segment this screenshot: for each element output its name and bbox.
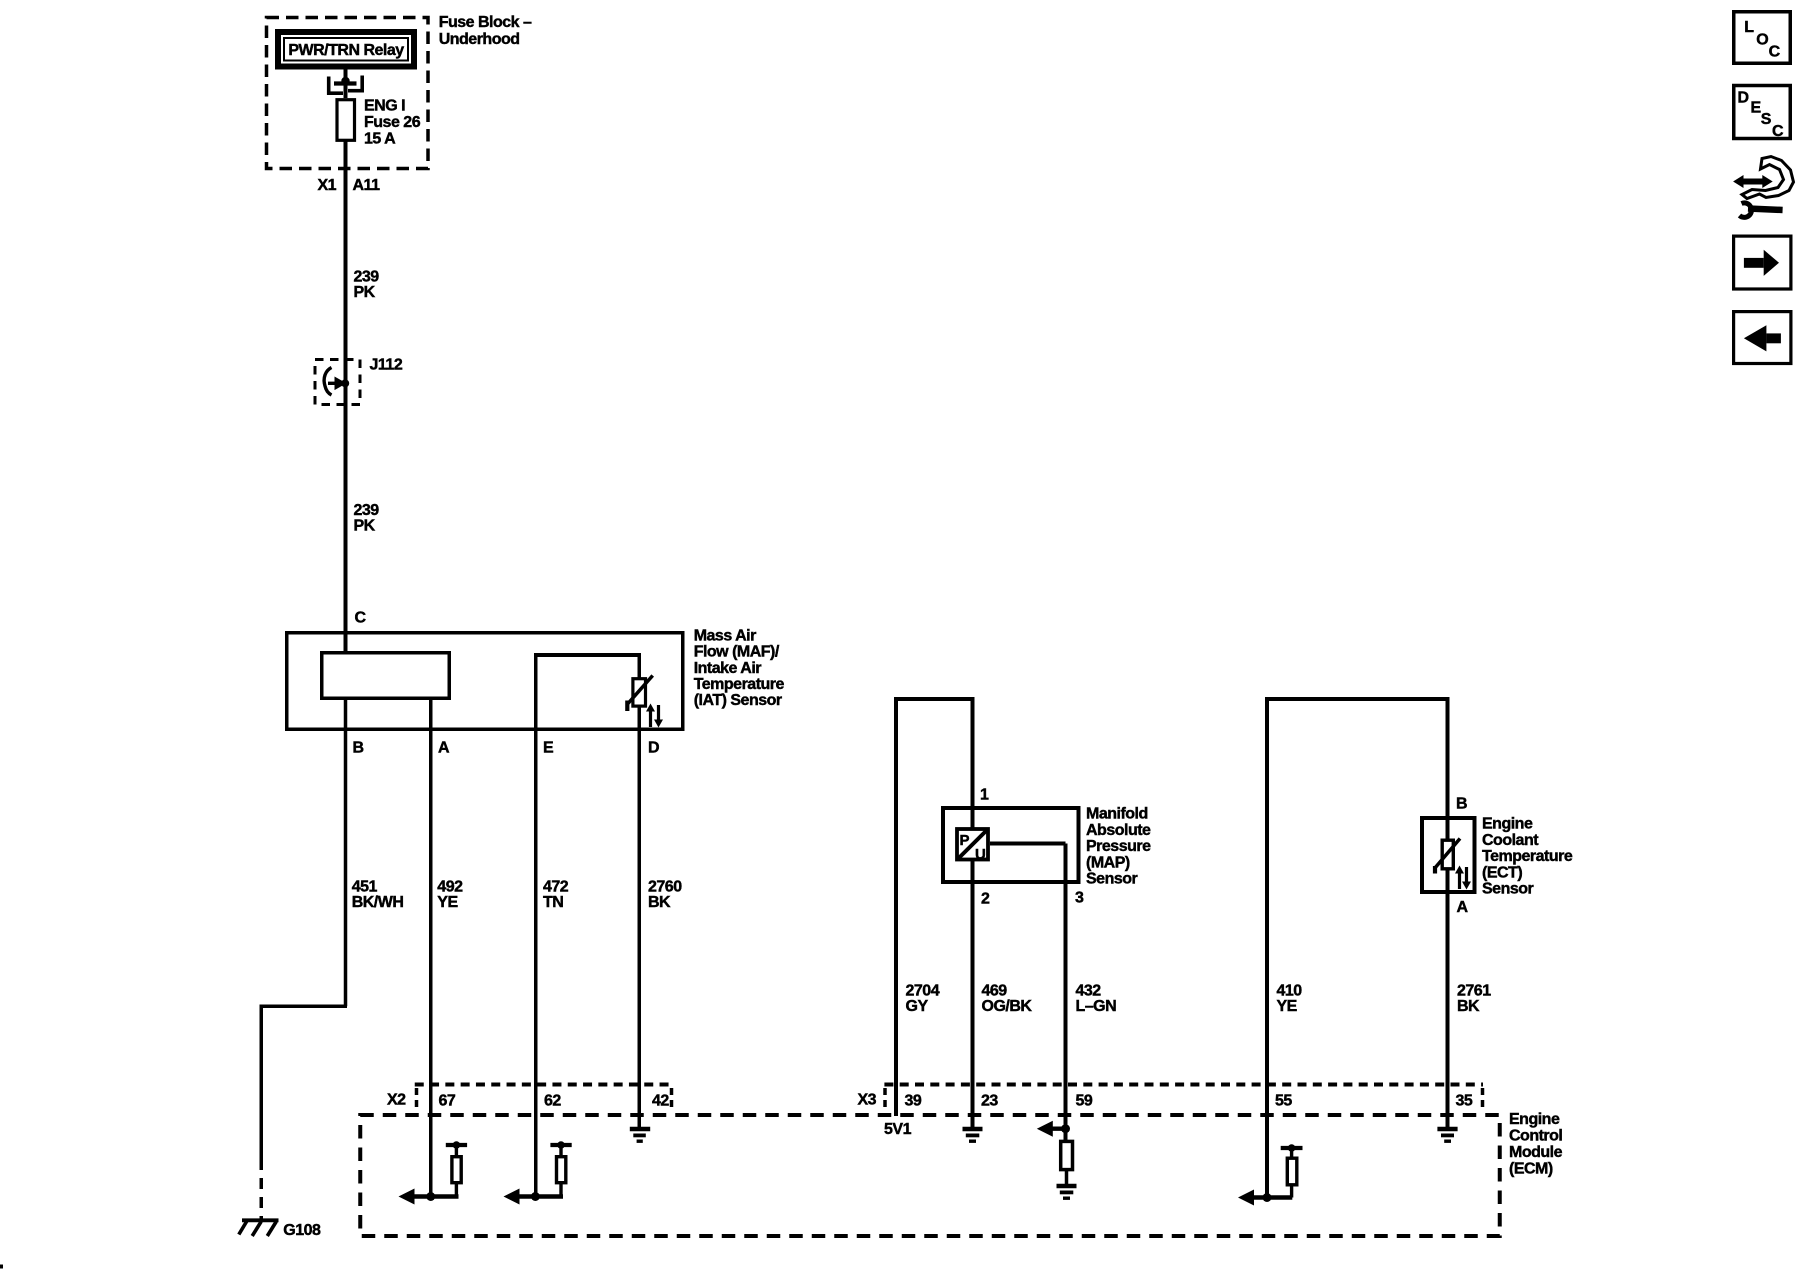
svg-text:(ECM): (ECM) <box>1509 1161 1553 1178</box>
thermistor ECT element <box>1435 839 1461 874</box>
wire label 469 OG/BK <box>982 983 1033 1016</box>
svg-text:Engine: Engine <box>1509 1111 1560 1128</box>
wire 2761 BK: ECT A to ECM 35 ground <box>1446 869 1450 1128</box>
page edge mark <box>0 1265 3 1269</box>
splice J112 dashed box <box>315 360 360 405</box>
svg-text:2: 2 <box>981 891 990 908</box>
svg-text:Sensor: Sensor <box>1482 881 1534 898</box>
svg-text:Fuse Block –: Fuse Block – <box>439 14 532 31</box>
connector X3 strip (dotted) <box>884 1085 1483 1112</box>
thermistor IAT element <box>627 676 652 712</box>
ECM output arrow at pin 55 <box>1238 1190 1292 1206</box>
svg-text:OG/BK: OG/BK <box>982 998 1033 1015</box>
svg-text:5V1: 5V1 <box>884 1121 912 1138</box>
svg-text:BK/WH: BK/WH <box>352 894 404 911</box>
wire: MAP internal U output to pin 3 <box>990 842 1066 846</box>
svg-text:35: 35 <box>1456 1093 1473 1110</box>
wire 2704 GY: ECM 39 up and over to MAP pin 1 <box>894 699 975 1116</box>
ECM reference arrow at pin 59 <box>1037 1121 1070 1137</box>
svg-text:39: 39 <box>905 1093 922 1110</box>
ECM output arrow at pin 62 <box>504 1189 564 1205</box>
wire: MAF internal E to D top link <box>536 653 640 731</box>
label: Fuse Block - Underhood <box>439 14 532 48</box>
svg-text:L–GN: L–GN <box>1076 998 1117 1015</box>
svg-text:S: S <box>1761 111 1772 128</box>
svg-text:X3: X3 <box>858 1092 877 1109</box>
svg-text:GY: GY <box>906 998 929 1015</box>
svg-text:TN: TN <box>543 894 563 911</box>
svg-text:Pressure: Pressure <box>1086 838 1151 855</box>
svg-text:Temperature: Temperature <box>1482 848 1573 865</box>
svg-text:472: 472 <box>543 879 569 896</box>
svg-text:Engine: Engine <box>1482 816 1533 833</box>
svg-text:PWR/TRN Relay: PWR/TRN Relay <box>288 42 404 59</box>
nav icon forward arrow box <box>1734 236 1791 289</box>
ground G108 <box>239 1220 279 1237</box>
wire label 2760 BK <box>648 879 682 912</box>
svg-text:Mass Air: Mass Air <box>694 627 756 644</box>
ECM output arrow at pin 67 <box>399 1189 459 1205</box>
svg-text:P: P <box>960 832 970 849</box>
svg-text:Manifold: Manifold <box>1086 806 1148 823</box>
connector X2 strip (dotted) <box>415 1085 672 1112</box>
svg-text:2761: 2761 <box>1457 983 1491 1000</box>
wire: fuse to MAF pin C (main feed) <box>344 140 348 652</box>
wire label 2761 BK <box>1457 983 1491 1016</box>
svg-text:D: D <box>648 740 659 757</box>
wire 451 BK/WH: MAF B to G108 <box>260 698 348 1219</box>
wire label 239 PK (lower) <box>354 502 380 535</box>
svg-text:55: 55 <box>1275 1093 1292 1110</box>
svg-text:O: O <box>1756 32 1768 49</box>
svg-text:YE: YE <box>1277 998 1298 1015</box>
svg-text:PK: PK <box>354 518 376 535</box>
svg-text:Fuse 26: Fuse 26 <box>364 114 421 131</box>
label: Manifold Absolute Pressure (MAP) Sensor <box>1086 806 1151 888</box>
wire label 472 TN <box>543 879 569 912</box>
svg-text:2704: 2704 <box>906 983 940 1000</box>
svg-text:U: U <box>975 846 986 863</box>
svg-text:67: 67 <box>439 1093 456 1110</box>
wire 472 TN: MAF E to ECM 62 <box>534 731 538 1197</box>
svg-text:X2: X2 <box>387 1092 406 1109</box>
svg-text:YE: YE <box>437 894 458 911</box>
svg-text:C: C <box>1769 44 1781 61</box>
wire label 451 BK/WH <box>352 879 404 912</box>
fuse block underhood dashed box <box>267 18 429 169</box>
svg-text:A: A <box>438 740 450 757</box>
nav icon tools/repair <box>1733 157 1793 218</box>
svg-text:451: 451 <box>352 879 378 896</box>
svg-text:Underhood: Underhood <box>439 31 520 48</box>
wire label 410 YE <box>1277 983 1303 1016</box>
ECM dashed box <box>360 1115 1500 1236</box>
svg-text:410: 410 <box>1277 983 1303 1000</box>
MAF/IAT sensor outer box <box>287 633 683 730</box>
svg-text:432: 432 <box>1076 983 1102 1000</box>
svg-text:Intake Air: Intake Air <box>694 660 762 677</box>
svg-text:Sensor: Sensor <box>1086 871 1138 888</box>
ECT sensor box <box>1422 818 1475 892</box>
MAP P/U transducer symbol <box>957 829 988 863</box>
svg-text:(MAP): (MAP) <box>1086 854 1130 871</box>
svg-text:X1: X1 <box>318 177 337 194</box>
wire 492 YE: MAF A to ECM 67 <box>429 698 433 1197</box>
nav icon back arrow box <box>1734 312 1791 364</box>
svg-text:2760: 2760 <box>648 879 682 896</box>
svg-text:1: 1 <box>980 787 989 804</box>
ECT bidirectional arrows <box>1455 866 1471 890</box>
ECM pull-up resistor at pin 62 <box>550 1141 571 1196</box>
svg-text:PK: PK <box>354 284 376 301</box>
fuse F26: ENG I Fuse 26 15 A <box>337 98 421 148</box>
svg-text:239: 239 <box>354 502 380 519</box>
node X1 A11 labels <box>318 177 381 194</box>
svg-text:BK: BK <box>1457 998 1480 1015</box>
svg-text:Temperature: Temperature <box>694 676 785 693</box>
svg-text:J112: J112 <box>370 357 403 374</box>
ECM pull-up resistor at pin 67 <box>446 1141 467 1196</box>
label: Engine Control Module (ECM) <box>1509 1111 1563 1178</box>
svg-text:A: A <box>1457 899 1469 916</box>
svg-text:239: 239 <box>354 269 380 286</box>
ECM ground at pin 23 <box>963 1129 983 1141</box>
MAP sensor box <box>943 808 1079 882</box>
wire 2760 BK: IAT D to ECM 42 ground <box>638 707 642 1127</box>
svg-text:Control: Control <box>1509 1128 1562 1145</box>
svg-text:62: 62 <box>544 1093 561 1110</box>
ECM ground at pin 35 <box>1437 1129 1457 1141</box>
ECM pull-up resistor at pin 55 <box>1281 1144 1303 1197</box>
wire: relay to fuse clip <box>344 70 348 99</box>
fuse holder clip terminal <box>327 76 364 95</box>
svg-text:C: C <box>1772 123 1784 140</box>
wire label 492 YE <box>437 879 463 912</box>
ECM ground at pin 42 <box>630 1129 650 1141</box>
svg-text:Absolute: Absolute <box>1086 822 1151 839</box>
splice J112 terminal symbol <box>324 368 349 396</box>
svg-text:23: 23 <box>981 1093 998 1110</box>
ECM ground below resistor at pin 59 <box>1057 1186 1077 1198</box>
wire label 239 PK (upper) <box>354 269 380 302</box>
nav icon DESC box <box>1734 86 1791 141</box>
relay K: PWR/TRN Relay box <box>278 32 414 67</box>
svg-text:D: D <box>1738 90 1749 107</box>
MAF sensor inner element box <box>322 653 450 699</box>
svg-text:3: 3 <box>1075 890 1084 907</box>
wire label 432 L-GN <box>1076 983 1117 1016</box>
svg-text:Module: Module <box>1509 1144 1563 1161</box>
svg-text:A11: A11 <box>353 177 381 194</box>
svg-text:42: 42 <box>652 1093 669 1110</box>
wire label 2704 GY <box>906 983 940 1016</box>
svg-text:15 A: 15 A <box>364 130 396 147</box>
svg-text:(ECT): (ECT) <box>1482 864 1522 881</box>
nav icon LOC box <box>1734 12 1791 64</box>
svg-text:B: B <box>353 740 364 757</box>
svg-text:492: 492 <box>437 879 463 896</box>
IAT bidirectional arrows <box>646 704 663 728</box>
svg-text:(IAT) Sensor: (IAT) Sensor <box>694 692 782 709</box>
wire 432 L-GN: MAP pin 3 to ECM 59 <box>1064 844 1068 1141</box>
svg-text:59: 59 <box>1076 1093 1093 1110</box>
svg-text:C: C <box>355 610 367 627</box>
label: Mass Air Flow (MAF)/ Intake Air Temperature (IAT) Sensor <box>694 627 785 709</box>
wire 469 OG/BK: MAP pin 2 to ECM 23 <box>971 860 975 1128</box>
MAF pin labels B A E D <box>353 740 660 757</box>
svg-text:ENG I: ENG I <box>364 98 405 115</box>
svg-text:BK: BK <box>648 894 671 911</box>
svg-text:Flow (MAF)/: Flow (MAF)/ <box>694 644 780 661</box>
wire 410 YE: ECM 55 up and over to ECT pin B <box>1265 699 1450 1198</box>
svg-text:B: B <box>1456 796 1467 813</box>
svg-text:G108: G108 <box>283 1222 321 1239</box>
svg-text:E: E <box>543 740 554 757</box>
svg-text:Coolant: Coolant <box>1482 832 1539 849</box>
svg-text:L: L <box>1744 19 1754 36</box>
svg-text:469: 469 <box>982 983 1008 1000</box>
label: Engine Coolant Temperature (ECT) Sensor <box>1482 816 1573 898</box>
ECM series resistor to ground at pin 59 <box>1061 1141 1073 1184</box>
